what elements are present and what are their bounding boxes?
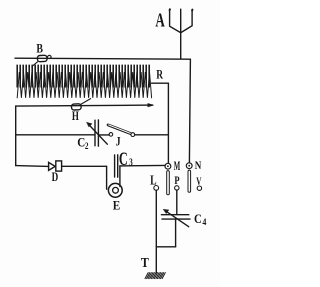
label C4 — [194, 211, 207, 228]
wire switch to right vertical — [135, 134, 169, 136]
svg-text:N: N — [195, 158, 202, 172]
svg-text:R: R — [156, 67, 163, 82]
ground (earth) — [145, 273, 165, 279]
wire left vertical — [15, 106, 17, 166]
svg-text:M: M — [174, 159, 181, 173]
wire H line — [16, 105, 153, 106]
terminal M (jack) — [165, 163, 171, 195]
terminal P — [175, 186, 179, 190]
capacitor C2 — [87, 120, 108, 146]
wire D line — [16, 165, 166, 166]
capacitor C3 — [115, 155, 118, 177]
svg-text:D: D — [52, 169, 59, 184]
coil (inductance) — [17, 65, 151, 98]
wire C4 bottom to loop — [175, 219, 177, 247]
antenna A — [170, 9, 193, 32]
wire top line — [15, 58, 190, 59]
label C3 — [119, 149, 133, 170]
wire right edge down to N — [189, 59, 190, 163]
svg-text:E: E — [113, 197, 121, 212]
terminal V — [197, 186, 201, 190]
wire C2 to switch contact — [99, 134, 109, 136]
svg-text:4: 4 — [202, 218, 206, 228]
wire antenna lead — [180, 33, 182, 59]
svg-text:A: A — [155, 9, 165, 31]
svg-text:H: H — [72, 109, 79, 123]
slider B — [32, 55, 51, 66]
switch J — [108, 125, 135, 137]
wire vertical to M — [167, 83, 169, 163]
svg-text:C: C — [194, 211, 202, 226]
capacitor C4 — [161, 209, 190, 226]
wire coil stub to right vertical — [152, 82, 169, 84]
receiver E (phone) — [108, 183, 122, 197]
wire P to C4 — [176, 190, 178, 214]
terminal N (jack) — [186, 163, 192, 193]
svg-text:2: 2 — [85, 141, 89, 151]
label C2 — [77, 135, 89, 151]
detector D (triangle and box) — [49, 161, 62, 171]
wire loop bottom — [156, 246, 175, 248]
svg-text:T: T — [141, 255, 149, 270]
svg-text:3: 3 — [129, 158, 133, 169]
arrow tip on H line end — [148, 103, 154, 106]
receiver E leads — [107, 166, 120, 189]
wire L down to ground — [155, 190, 157, 272]
terminal L — [154, 186, 159, 191]
slider H — [71, 99, 90, 111]
wire C2 J line left — [16, 134, 95, 136]
svg-text:B: B — [36, 42, 43, 56]
svg-text:J: J — [116, 134, 121, 148]
svg-text:P: P — [174, 173, 179, 187]
